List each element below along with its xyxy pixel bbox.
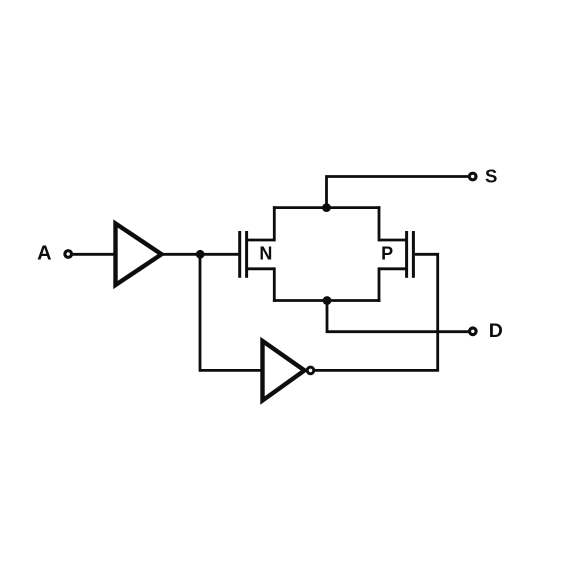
buffer U1 (116, 224, 162, 286)
transistor P gate bar (412, 231, 415, 278)
top rail wire (273, 206, 381, 209)
wire A terminal to buffer input (72, 253, 115, 256)
node junction dot after buffer (196, 250, 205, 259)
wire inverter output to P gate vertical (314, 369, 439, 372)
bottom rail junction dot (323, 296, 332, 305)
wire node down to inverter input (200, 254, 261, 370)
inverter bubble (307, 367, 314, 374)
transistor N source stub (247, 267, 275, 270)
wire top rail up to S (327, 177, 469, 208)
transistor N gate bar (238, 231, 241, 278)
terminal D open circle (470, 328, 477, 335)
wire buffer output to N gate (162, 253, 239, 256)
svg-text:N: N (259, 244, 272, 264)
wire P source to bottom rail (378, 267, 381, 302)
top rail junction dot (322, 203, 331, 212)
wire N source to bottom rail (273, 267, 276, 302)
terminal S open circle (469, 173, 476, 180)
wire bottom rail down to D (327, 301, 469, 332)
terminal A open circle (65, 251, 72, 258)
inverter U2 (263, 341, 305, 401)
wire N drain to top rail (273, 206, 276, 241)
transistor P source stub (379, 267, 407, 270)
transistor P drain stub (379, 239, 407, 242)
svg-text:D: D (489, 320, 503, 342)
transistor P channel bar (405, 231, 408, 278)
wire P gate to inverter output (415, 254, 438, 370)
svg-text:A: A (37, 242, 51, 264)
bottom rail wire (273, 299, 381, 302)
svg-text:P: P (381, 244, 393, 264)
transistor N drain stub (247, 239, 275, 242)
transistor N channel bar (245, 231, 248, 278)
wire P drain to top rail (378, 206, 381, 241)
svg-text:S: S (485, 165, 497, 186)
